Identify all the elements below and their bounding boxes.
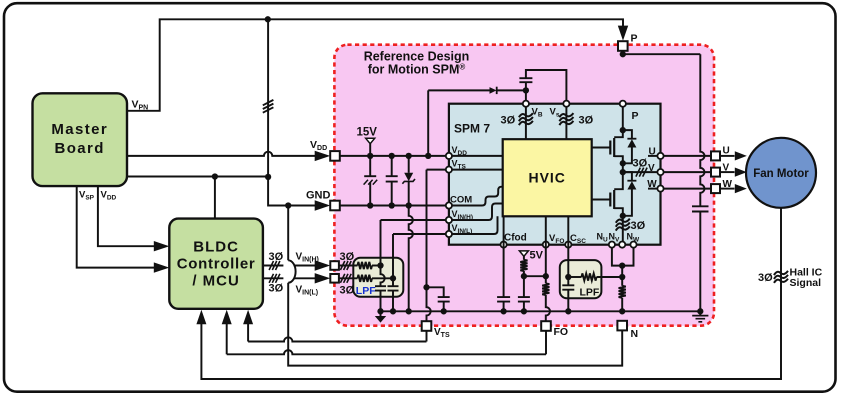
pin V_TS <box>446 167 452 173</box>
capacitor C1 (polarized) <box>364 156 378 206</box>
coil V_B <box>519 113 533 125</box>
arrow W into motor <box>735 184 747 193</box>
block LPF 1 <box>353 258 403 297</box>
3-phase slash on V_IN(H) right <box>340 261 351 270</box>
arrow feedback 3 into BLDC <box>243 310 253 325</box>
node rail vts-cap <box>441 308 447 314</box>
svg-text:for Motion SPM®: for Motion SPM® <box>368 63 466 77</box>
wire LPF1a to pin <box>381 220 447 266</box>
label U (SPM) <box>649 147 656 158</box>
svg-text:3Ø: 3Ø <box>579 115 594 127</box>
wire COM rail <box>340 205 446 207</box>
label 3-phase V <box>633 158 648 170</box>
capacitor C2 <box>386 156 398 206</box>
wire LPF1a cap drop <box>381 266 385 287</box>
node P branch <box>620 51 626 57</box>
supply 5V symbol <box>519 251 528 260</box>
label GND <box>306 190 331 202</box>
pin N_V <box>619 242 625 248</box>
node N line junction <box>619 274 625 280</box>
arrow feedback 2 into BLDC <box>222 310 232 325</box>
3-phase slash on V_IN(L) right <box>340 274 351 283</box>
capacitor Cfod <box>497 297 510 311</box>
svg-text:3Ø: 3Ø <box>758 272 773 284</box>
node 5V junction <box>521 273 527 279</box>
node bootstrap branch <box>425 153 431 159</box>
svg-text:BLDC: BLDC <box>193 239 239 256</box>
svg-text:P: P <box>631 33 638 45</box>
capacitor DC bus <box>692 206 709 311</box>
svg-text:Master: Master <box>51 121 108 138</box>
arrow U into motor <box>735 151 747 160</box>
pin C_SC <box>565 242 571 248</box>
svg-text:3Ø: 3Ø <box>269 283 284 295</box>
pin V_B <box>523 101 529 107</box>
capacitor bootstrap <box>519 70 566 100</box>
diode Q1 body <box>623 130 637 163</box>
node GND branch to BLDC <box>265 174 271 180</box>
label 3-phase source <box>631 220 646 232</box>
terminal FO <box>541 321 551 331</box>
wire V to terminal <box>664 171 711 173</box>
svg-text:V: V <box>648 163 655 174</box>
label FO <box>554 326 569 338</box>
node Q1 source <box>620 160 626 166</box>
wire Master Board lower to GND net <box>127 176 268 178</box>
svg-text:3Ø: 3Ø <box>631 220 646 232</box>
label V_TS (bottom) <box>434 327 450 339</box>
svg-text:U: U <box>723 146 730 157</box>
label W (out) <box>723 179 733 190</box>
arrow into GND terminal <box>315 200 331 210</box>
svg-text:SPM 7: SPM 7 <box>454 122 490 136</box>
label 3-phase upper-left <box>269 251 284 263</box>
wire source to N pins <box>622 216 624 245</box>
label Cfod <box>504 233 527 244</box>
svg-text:Cfod: Cfod <box>504 233 527 244</box>
label W (SPM) <box>647 179 657 190</box>
wire ground rail <box>381 310 701 312</box>
label V_SP <box>79 190 95 202</box>
ground symbol (chassis) <box>692 311 708 322</box>
label P (top) <box>631 33 638 45</box>
wire V_TS return <box>248 322 426 342</box>
pin N_U <box>609 242 615 248</box>
wire COM to bottom rail <box>409 206 413 312</box>
node Q2 source <box>620 213 626 219</box>
transistor Q1 (high side) <box>610 130 623 163</box>
block Master Board <box>33 93 128 186</box>
wire FO return <box>227 322 546 354</box>
svg-text:HVIC: HVIC <box>528 170 565 186</box>
arrow V into motor <box>735 168 747 177</box>
wire U stub <box>648 155 657 157</box>
node 15V tap <box>367 153 373 159</box>
pin W <box>657 186 663 192</box>
3-phase slash on V_IN(L) left <box>269 274 280 283</box>
pin V <box>657 169 663 175</box>
node Q1 drain <box>620 127 626 133</box>
svg-text:W: W <box>647 179 657 190</box>
node V_TS cap branch <box>423 284 429 290</box>
diode Q2 body <box>623 172 637 216</box>
svg-text:Reference Design: Reference Design <box>364 50 470 64</box>
wire U arrow feed <box>720 155 735 157</box>
label 3-phase lower-right <box>340 285 355 297</box>
wire Cfod <box>503 216 505 297</box>
wire bootstrap riser <box>427 90 429 155</box>
node V midpoint <box>620 169 626 175</box>
arrow V_SP into BLDC <box>154 262 170 272</box>
wire V_IN(H) into LPF <box>339 265 358 267</box>
wire W to terminal <box>664 188 711 190</box>
svg-text:FO: FO <box>554 326 569 338</box>
ground symbol (signal) <box>375 311 386 322</box>
wire U to terminal <box>664 155 711 157</box>
wire W stub <box>648 188 657 190</box>
label V_B <box>532 107 543 119</box>
svg-text:5V: 5V <box>530 250 544 262</box>
wire P bus branch <box>623 51 705 207</box>
svg-text:GND: GND <box>306 190 331 202</box>
wire V_SP to BLDC <box>77 186 164 268</box>
node LPF1b out <box>390 275 396 281</box>
wire bridge midpoint <box>622 163 624 172</box>
diode bootstrap <box>428 87 526 94</box>
label 3-phase V_B <box>501 115 516 127</box>
label 15V <box>357 127 378 139</box>
capacitor 5V filter <box>518 276 530 311</box>
pin V_DD <box>446 153 452 159</box>
node rail zener <box>406 308 412 314</box>
reference design region (pink dashed box) <box>334 45 714 326</box>
node rail lpf1a <box>377 308 383 314</box>
resistor LPF2 <box>568 273 622 280</box>
wire V_IN(L) pin to HVIC <box>449 216 498 234</box>
wire lower gate <box>592 199 611 201</box>
label V (out) <box>723 162 730 173</box>
terminal P <box>618 41 628 51</box>
block LPF 2 <box>560 260 602 298</box>
terminal GND <box>330 201 340 211</box>
node rail lpf1b <box>390 308 396 314</box>
svg-text:P: P <box>631 110 638 122</box>
node bootstrap diode out <box>523 87 529 93</box>
wire P into bridge <box>622 104 624 130</box>
terminal V_TS (bottom) <box>422 321 432 331</box>
wire V_FO <box>545 216 547 276</box>
pin V_FO <box>543 242 549 248</box>
label N_W <box>627 232 641 244</box>
label V_IN(H) pin <box>452 209 474 221</box>
resistor FO series <box>542 276 550 321</box>
wire V_PN from Master Board up and right to P <box>127 19 623 111</box>
wire BLDC top feed <box>214 177 216 219</box>
svg-text:3Ø: 3Ø <box>633 158 648 170</box>
svg-text:3Ø: 3Ø <box>340 251 355 263</box>
zener D1 <box>402 156 415 206</box>
wire COM pin to HVIC <box>449 187 503 206</box>
wire V_B drop <box>525 90 527 100</box>
wire V_IN(L) BLDC to terminal <box>263 277 317 279</box>
fan motor <box>746 138 816 208</box>
node rail n <box>619 308 625 314</box>
label COM pin <box>450 195 472 206</box>
terminal V_IN(H) <box>330 261 339 270</box>
svg-text:Controller: Controller <box>177 256 256 273</box>
svg-text:3Ø: 3Ø <box>269 251 284 263</box>
wire W arrow feed <box>720 188 735 190</box>
resistor 5V pullup <box>520 260 527 271</box>
wire V_DD from Master Board <box>127 152 326 156</box>
wire V_TS pin to V_TS net <box>427 169 503 171</box>
label 3-phase upper-right <box>340 251 355 263</box>
node junction top wire <box>265 16 271 22</box>
label V_IN(L) pin <box>452 223 473 235</box>
3-phase coil on Hall wire <box>774 271 788 283</box>
svg-text:/ MCU: / MCU <box>192 273 240 290</box>
pin V_s <box>563 101 569 107</box>
node C_SC junction <box>565 274 571 280</box>
pin P <box>620 101 626 107</box>
node rail buscap <box>697 308 703 314</box>
label N_V <box>609 232 621 244</box>
capacitor LPF2 <box>562 277 574 311</box>
svg-text:N: N <box>631 328 639 340</box>
node COM c1 <box>367 202 373 208</box>
arrow V_DD into BLDC <box>154 241 170 251</box>
svg-text:LPF: LPF <box>356 285 376 297</box>
wire upper gate <box>592 147 611 149</box>
resistor LPF1a <box>358 262 381 269</box>
terminal V_DD <box>330 151 340 161</box>
wire Hall return <box>201 208 781 379</box>
wire C_SC <box>567 216 569 277</box>
label V_PN <box>132 99 149 112</box>
capacitor LPF1a <box>375 286 386 311</box>
terminal V_IN(L) <box>330 274 339 283</box>
label 3-phase lower-left <box>269 283 284 295</box>
label V_DD (terminal) <box>310 139 327 152</box>
svg-text:3Ø: 3Ø <box>501 115 516 127</box>
capacitor LPF1b <box>388 278 399 311</box>
3-phase slash on V_IN(H) left <box>269 261 280 270</box>
label U (out) <box>723 146 730 157</box>
wire V_TS cap branch <box>427 287 444 297</box>
pin V_IN(L) <box>446 231 452 237</box>
wire V_IN(L) into LPF <box>339 277 358 279</box>
terminal U <box>711 151 720 160</box>
node BLDC feed junction <box>212 173 218 179</box>
transistor Q2 (low side) <box>610 172 623 216</box>
resistor N shunt <box>619 286 626 312</box>
block SPM 7 <box>449 104 661 245</box>
node rail 5v <box>521 308 527 314</box>
node rail csc <box>565 308 571 314</box>
arrow into V_IN(H) terminal <box>315 260 331 270</box>
label V_IN(L) wire <box>296 285 319 297</box>
svg-text:Board: Board <box>55 140 105 157</box>
svg-text:COM: COM <box>450 195 472 206</box>
label 3-phase V_s <box>579 115 594 127</box>
wire 15V rail <box>340 155 446 157</box>
node COM c2 <box>389 202 395 208</box>
svg-text:Signal: Signal <box>790 277 822 289</box>
label V_FO <box>549 233 564 245</box>
label N_U <box>597 232 609 244</box>
label 3-phase Hall <box>758 272 773 284</box>
coil source 3-phase <box>616 219 630 231</box>
node V_FO junction <box>543 273 549 279</box>
coil V_s <box>559 113 573 125</box>
arrow into P terminal <box>618 26 628 41</box>
svg-text:LPF: LPF <box>580 287 600 299</box>
svg-text:15V: 15V <box>357 127 378 139</box>
terminal W <box>711 184 720 193</box>
block HVIC U1 <box>503 139 592 216</box>
supply 15V symbol <box>366 138 375 156</box>
reference design title <box>364 50 470 77</box>
wire V_DD to BLDC <box>98 186 164 246</box>
3-phase slash on V <box>636 168 647 177</box>
node rail cfod <box>500 308 506 314</box>
wire N_U join <box>612 245 634 266</box>
label V_TS pin <box>452 159 467 171</box>
wire 5V to V_FO <box>524 271 546 276</box>
label V_IN(H) wire <box>296 252 319 264</box>
block BLDC Controller / MCU <box>169 219 263 309</box>
pin V_IN(H) <box>446 217 452 223</box>
wire V_IN(H) BLDC to terminal <box>263 265 317 267</box>
resistor LPF1b <box>358 275 394 282</box>
svg-text:Fan Motor: Fan Motor <box>753 168 809 180</box>
label C_SC <box>570 233 586 245</box>
label Hall IC Signal <box>790 267 823 289</box>
wire GND feed vertical <box>268 19 326 205</box>
pin Cfod <box>501 242 507 248</box>
arrow into V_DD terminal <box>315 151 331 161</box>
wire V_TS net <box>427 170 431 322</box>
node COM zener <box>406 202 412 208</box>
wire V_s into HVIC <box>565 104 567 140</box>
node GND down-branch <box>285 202 291 208</box>
3-phase slash on P feed <box>263 100 274 113</box>
svg-text:U: U <box>649 147 656 158</box>
pin U <box>657 153 663 159</box>
pin COM <box>446 202 452 208</box>
label V (SPM) <box>648 163 655 174</box>
terminal N <box>617 321 627 331</box>
node cap2 top <box>389 153 395 159</box>
wire V out <box>623 171 657 173</box>
label 5V <box>530 250 544 262</box>
node LPF1a out <box>377 262 383 268</box>
arrow feedback 1 into BLDC <box>196 310 206 325</box>
label N <box>631 328 639 340</box>
node zener top <box>406 153 412 159</box>
pin N_W <box>630 242 636 248</box>
wire N line <box>621 266 623 286</box>
wire V_B into HVIC <box>525 104 527 140</box>
wire LPF1b to pin <box>393 234 446 278</box>
node N join <box>619 262 625 268</box>
capacitor V_TS <box>438 297 450 311</box>
wire GND to N terminal <box>288 206 622 366</box>
wire V_IN(H) pin to HVIC <box>449 204 503 221</box>
wire V arrow feed <box>720 171 735 173</box>
terminal V <box>711 168 720 177</box>
wire V_DD pin to HVIC <box>449 155 503 157</box>
label P (SPM) <box>631 110 638 122</box>
label V_s <box>550 107 560 119</box>
label V_DD (lower) <box>101 190 117 202</box>
arrow into V_IN(L) terminal <box>315 273 331 283</box>
label V_DD pin <box>452 145 468 157</box>
